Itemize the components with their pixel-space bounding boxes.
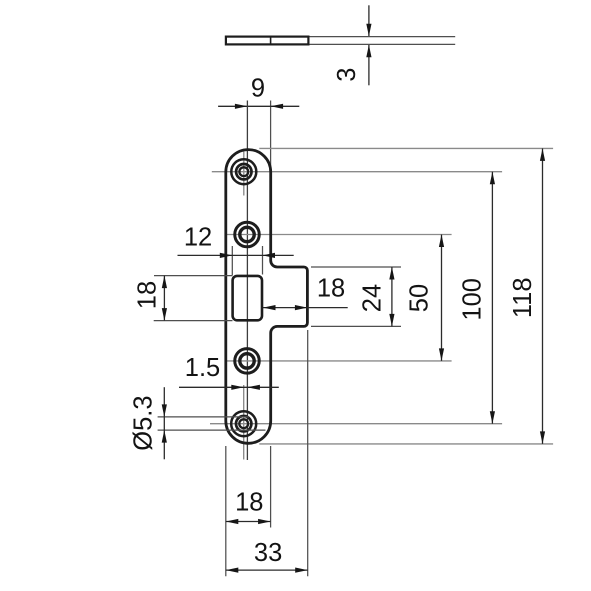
dimension 18 left arrow down xyxy=(162,308,167,321)
dimension 33 right extension line xyxy=(307,330,309,576)
dimension 18 left top extension line xyxy=(154,275,233,277)
dimension 18 bottom line xyxy=(226,521,271,523)
dimension 24 line xyxy=(391,267,393,326)
dimension 24 top extension line xyxy=(311,266,401,268)
svg-text:12: 12 xyxy=(184,223,212,251)
dimension 5.3 arrow down xyxy=(162,404,167,417)
dimension 50 line xyxy=(441,235,443,361)
dimension 50 arrow up xyxy=(439,235,444,248)
hole 3 horizontal centerline xyxy=(227,360,452,362)
hole 1 inner circle xyxy=(239,167,248,176)
side view plate rectangle xyxy=(226,37,309,45)
dimension 9 arrow left xyxy=(271,104,284,109)
dimension 50 arrow down xyxy=(439,348,444,361)
dimension 1.5 arrow right xyxy=(231,385,244,390)
hole 2 inner circle xyxy=(240,227,254,241)
hole 2 outer circle xyxy=(235,222,260,247)
dimension 18 bottom right extension line xyxy=(270,446,272,528)
hole 3 inner circle xyxy=(240,354,254,368)
svg-text:50: 50 xyxy=(406,284,434,312)
dimension 3 arrow down xyxy=(366,24,371,37)
side view divider line xyxy=(270,36,272,45)
dimension 9 arrow right xyxy=(235,104,248,109)
dimension 1.5 line xyxy=(179,386,279,388)
dimension 118 bottom extension line xyxy=(259,443,553,445)
dimension 9 right extension line xyxy=(270,101,272,169)
dimension 18 middle arrow right xyxy=(295,305,308,310)
dimension 18 bottom left extension line xyxy=(225,446,227,576)
dimension 24 bottom extension line xyxy=(311,325,401,327)
dimension 18 left bottom extension line xyxy=(154,320,233,322)
strike plate outline xyxy=(226,150,308,444)
dimension 12 line xyxy=(178,254,294,256)
hole 1 horizontal centerline xyxy=(212,171,502,173)
svg-text:18: 18 xyxy=(134,281,162,309)
hole 4 vertical centerline xyxy=(243,385,245,460)
svg-text:Ø5.3: Ø5.3 xyxy=(130,395,158,450)
dimension 12 left extension line xyxy=(231,246,233,275)
dimension 18 left arrow up xyxy=(162,276,167,289)
svg-text:24: 24 xyxy=(358,284,386,312)
dimension 33 arrow left xyxy=(226,568,239,573)
dimension 24 arrow up xyxy=(389,267,394,280)
dimension 33 arrow right xyxy=(295,568,308,573)
dimension 9 line xyxy=(218,105,299,107)
dimension 18 middle line xyxy=(263,307,348,309)
svg-text:18: 18 xyxy=(317,275,345,303)
dimension 100 line xyxy=(491,172,493,424)
hole 3 outer circle xyxy=(235,349,260,374)
dimension 118 top extension line xyxy=(259,147,553,149)
svg-text:118: 118 xyxy=(509,277,537,318)
hole 1 countersink outer circle xyxy=(231,159,256,184)
hole 4 inner circle xyxy=(239,419,248,428)
main vertical centerline xyxy=(246,101,248,461)
dimension 3 arrow up xyxy=(366,45,371,58)
hole 1 vertical centerline xyxy=(243,152,245,196)
dimension 18 bottom arrow right xyxy=(258,519,271,524)
dimension 5.3 arrow up xyxy=(162,430,167,443)
hole 4 countersink outer circle xyxy=(231,411,256,436)
dimension 118 line xyxy=(542,148,544,444)
dimension 3 line upper xyxy=(368,5,370,36)
svg-text:3: 3 xyxy=(333,68,361,82)
hole 1 middle circle xyxy=(236,164,251,179)
dimension 33 line xyxy=(226,569,308,571)
hole 4 horizontal centerline xyxy=(210,423,502,425)
dimension 118 arrow up xyxy=(540,148,545,161)
svg-text:100: 100 xyxy=(459,278,487,321)
side view bottom edge extension line xyxy=(310,43,456,45)
dimension 3 line lower xyxy=(368,45,370,85)
hole 4 middle circle xyxy=(236,416,251,431)
dimension 24 arrow down xyxy=(389,314,394,327)
dimension 18 bottom arrow left xyxy=(226,519,239,524)
svg-text:1.5: 1.5 xyxy=(185,354,220,382)
dimension 5.3 bottom extension line xyxy=(158,429,266,431)
dimension 100 arrow up xyxy=(490,172,495,185)
dimension 1.5 arrow left xyxy=(247,385,260,390)
hole 2 horizontal centerline xyxy=(227,234,452,236)
dimension 118 arrow down xyxy=(540,431,545,444)
svg-text:18: 18 xyxy=(235,488,263,516)
dimension 18 middle arrow left xyxy=(263,305,276,310)
dimension 12 arrow left xyxy=(263,253,276,258)
svg-text:33: 33 xyxy=(254,539,282,567)
dimension 5.3 line xyxy=(163,387,165,459)
svg-text:9: 9 xyxy=(251,75,265,103)
dimension 100 arrow down xyxy=(490,411,495,424)
dimension 5.3 top extension line xyxy=(158,416,249,418)
dimension 12 right extension line xyxy=(262,246,264,275)
latch cutout xyxy=(233,276,262,320)
dimension 18 left line xyxy=(163,276,165,321)
dimension 12 arrow right xyxy=(220,253,233,258)
side view top edge extension line xyxy=(310,36,456,38)
